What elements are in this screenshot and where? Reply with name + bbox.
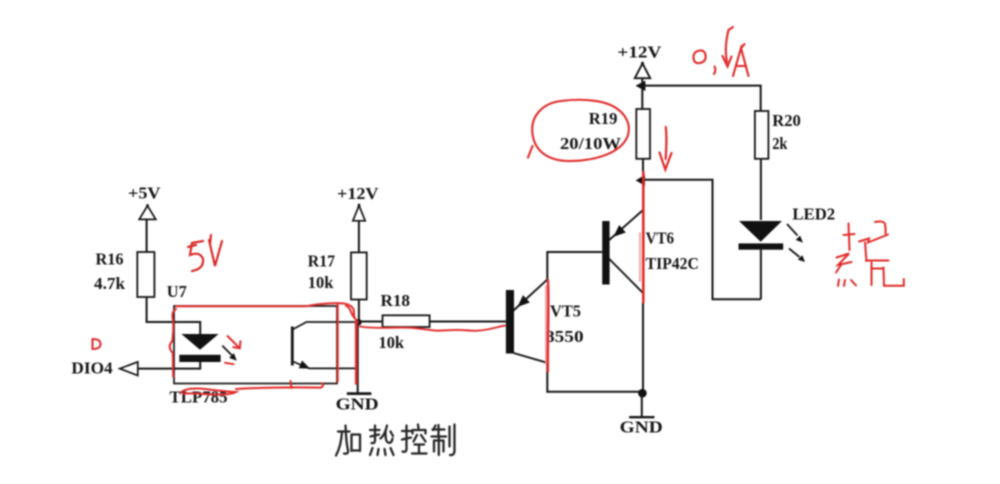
text 加热控制 heading [336,425,455,456]
power port +5V [128,184,161,220]
optocoupler U7 box [167,282,337,407]
wire opto LED cathode to DIO4 [138,362,200,369]
resistor R18 [379,291,430,352]
svg-text:20/10W: 20/10W [560,134,621,153]
node A junction dot [355,319,361,325]
wire LED2 cathode down [760,250,762,300]
red annotation down arrow beside R19 [660,127,672,170]
svg-text:GND: GND [620,418,663,437]
wire +12V to R17 [358,221,360,253]
svg-text:LED2: LED2 [792,205,835,224]
opto LED diode [179,334,220,362]
svg-text:VT5: VT5 [550,302,581,321]
svg-text:U7: U7 [167,282,187,301]
transistor VT5 8550 [506,280,584,363]
wire R19 to VT6 emitter [642,159,644,211]
wire +12V down to R19 [641,78,643,109]
red annotation D [93,339,101,349]
wire R17 to node A [358,300,360,322]
wire branch to R20 [641,86,761,111]
resistor R19 [560,109,650,159]
svg-text:R18: R18 [381,291,411,310]
opto emission arrow [222,346,237,361]
svg-text:R16: R16 [96,250,124,269]
wire R18 to VT5 base [430,321,506,323]
resistor R16 [94,250,154,298]
junction arrow below R19 [636,175,645,186]
wire branch to LED2 cathode [642,180,761,299]
port DIO4 [71,359,137,378]
red annotation trace around U7 [170,303,358,394]
wire R16 to opto LED anode [147,297,201,334]
svg-text:DIO4: DIO4 [71,359,113,378]
svg-text:VT6: VT6 [646,228,675,247]
svg-text:4.7k: 4.7k [94,274,126,293]
opto phototransistor [292,322,357,369]
red annotation 5V [188,235,222,271]
ground GND (right) [620,393,663,437]
ground junction dot [638,389,647,398]
power port +12V (right) [617,43,662,79]
svg-text:R20: R20 [772,111,801,130]
wire +5V to R16 [146,219,148,252]
svg-text:TIP42C: TIP42C [646,254,699,273]
LED LED2 [739,205,836,250]
red annotation opto light arrow [225,336,240,364]
svg-text:R17: R17 [308,252,336,271]
wire VT6 collector to ground junction [642,293,644,393]
wire node A to R18 [358,321,383,323]
wire R20 to LED2 anode [760,159,762,220]
svg-text:+12V: +12V [617,43,662,62]
svg-text:R19: R19 [589,109,618,128]
svg-text:10k: 10k [379,333,405,352]
red annotation 统 character [836,222,904,286]
resistor R17 [308,252,367,300]
LED2 emission arrows [787,224,805,262]
red annotation node A to GND current path [355,322,358,384]
red annotation trace along VT5 [546,280,548,372]
wire VT5 collector to ground node [547,363,641,392]
transistor VT6 TIP42C [602,210,699,293]
wire node A to ground [357,322,359,393]
junction arrow top [636,81,646,91]
svg-text:8550: 8550 [545,327,584,346]
svg-text:10k: 10k [308,273,334,292]
svg-text:GND: GND [336,394,379,413]
svg-text:+12V: +12V [337,184,379,203]
power port +12V (left) [337,184,379,221]
red annotation circle around R19 label [528,100,629,161]
ground GND (left) [336,394,379,414]
red annotation squiggle along R18 [360,326,505,331]
red annotation trace along VT6 rail [640,172,643,302]
svg-text:+5V: +5V [128,184,161,203]
wire VT5 emitter to VT6 base [547,252,602,280]
svg-text:2k: 2k [772,134,788,153]
resistor R20 [755,111,801,159]
red annotation 0.5A [693,27,748,76]
